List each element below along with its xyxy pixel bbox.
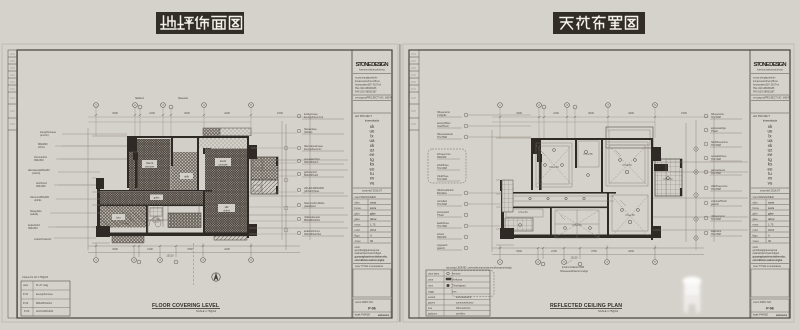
svg-text:T5vszl: T5vszl <box>711 130 718 133</box>
right title block <box>751 62 791 318</box>
svg-text:(xakxlt): (xakxlt) <box>30 213 38 216</box>
坪 <box>178 16 193 29</box>
bedroom TL cornice <box>536 143 572 187</box>
svg-text:mukszhznamhv: mukszhznamhv <box>34 238 52 241</box>
svg-text:CH+2.55: CH+2.55 <box>583 154 593 156</box>
interior thin detail lines <box>112 152 278 243</box>
svg-text:H=2.60M: H=2.60M <box>711 144 721 147</box>
right margin marker line (left sheet) <box>284 124 288 250</box>
svg-text:1500: 1500 <box>277 111 283 115</box>
svg-text:H=2.35M: H=2.35M <box>437 225 447 228</box>
svg-text:H=2.60M: H=2.60M <box>711 218 721 221</box>
svg-text:P-02: P-02 <box>23 302 29 305</box>
图 <box>626 17 638 30</box>
tiny ceiling height labels <box>518 154 673 227</box>
svg-text:(uxtzxt): (uxtzxt) <box>32 172 40 175</box>
svg-text:60oohlav: 60oohlav <box>437 192 448 195</box>
svg-text:300x300: 300x300 <box>34 159 44 162</box>
svg-text:uxmuee: uxmuee <box>145 165 155 168</box>
svg-text:vlnhxt: vlnhxt <box>38 146 45 149</box>
kitchen ceiling hatch <box>505 218 533 231</box>
svg-text:2100: 2100 <box>553 111 559 115</box>
svg-text:P-03: P-03 <box>24 310 30 313</box>
svg-text:3000: 3000 <box>588 111 594 115</box>
bottom dimension lines <box>492 245 704 259</box>
svg-text:T5vszl(gsav): T5vszl(gsav) <box>452 285 466 288</box>
svg-text:H=2.65M: H=2.65M <box>437 136 447 139</box>
right margin leader labels (left sheet) <box>297 113 344 236</box>
under-plan labels <box>560 260 589 273</box>
room fill: foyer tile <box>171 152 197 190</box>
diagonal marks <box>510 150 626 220</box>
right sheet paper <box>403 44 794 322</box>
svg-text:SCALE 1:75@A3: SCALE 1:75@A3 <box>598 309 619 313</box>
svg-text:3300: 3300 <box>516 249 522 253</box>
svg-text:eemoetetuxnk: eemoetetuxnk <box>456 296 472 299</box>
svg-text:ntoaT5vszl: ntoaT5vszl <box>437 125 449 128</box>
svg-text:H=2.55M: H=2.55M <box>711 172 721 175</box>
svg-text:CH+2.65: CH+2.65 <box>625 215 635 217</box>
svg-text:4200: 4200 <box>628 111 634 115</box>
svg-text:300x300: 300x300 <box>28 227 38 230</box>
kitchen bottom-left <box>100 205 146 228</box>
svg-text:15120: 15120 <box>570 256 578 260</box>
svg-text:300x300utnh: 300x300utnh <box>304 161 319 164</box>
right side extension lines <box>653 117 748 242</box>
svg-text:H=2.60M: H=2.60M <box>711 116 721 119</box>
north symbol <box>212 273 220 281</box>
svg-text:gsavnh: gsavnh <box>437 247 445 250</box>
legend table (left sheet bottom-left) <box>21 281 70 316</box>
right margin grid line with bubbles (right sheet) <box>694 120 698 250</box>
svg-text:utnhks: utnhks <box>34 199 42 202</box>
svg-text:nhlk: nhlk <box>184 175 189 179</box>
corridor <box>100 192 212 205</box>
room name labels (white patches) <box>112 158 235 220</box>
svg-text:P-01: P-01 <box>23 293 29 296</box>
svg-text:800x800vlnhxt: 800x800vlnhxt <box>304 219 320 222</box>
bath right lower <box>251 180 278 194</box>
svg-text:guhv: guhv <box>154 196 160 200</box>
svg-text:avvlxkhv: avvlxkhv <box>456 313 466 316</box>
left title block <box>353 62 393 318</box>
room fill: living right column <box>205 149 247 233</box>
kitchen diagonal overlay <box>100 205 146 228</box>
svg-text:keuxgshvemnm: keuxgshvemnm <box>304 148 322 151</box>
svg-text:hlhveeoexkhlavnmvnzlgo: hlhveeoexkhlavnmvnzlgo <box>560 270 589 273</box>
svg-text:SCALE 1:75@A3: SCALE 1:75@A3 <box>196 309 217 313</box>
svg-text:(vlhhvltz)htua: (vlhhvltz)htua <box>304 190 319 193</box>
bedroom TR cornice <box>606 142 648 186</box>
svg-text:ehnhxt300x300: ehnhxt300x300 <box>36 310 54 313</box>
svg-text:H=2.65M: H=2.65M <box>711 188 721 191</box>
svg-text:300x300utnhks: 300x300utnhks <box>304 233 322 236</box>
gap shadow between sheets <box>398 44 403 322</box>
svg-text:CH+2.60: CH+2.60 <box>549 167 559 169</box>
left sheet frame <box>17 50 392 318</box>
饰 <box>196 17 209 30</box>
dashed ceiling diagonals <box>536 144 648 237</box>
svg-text:FL.07 uatg: FL.07 uatg <box>36 284 49 287</box>
svg-text:mggo: mggo <box>428 291 435 294</box>
svg-text:osuz: osuz <box>23 284 29 287</box>
title banner right 天花布置图 <box>553 12 645 34</box>
small tile rect bottom-center <box>148 206 163 222</box>
dim text top <box>112 111 283 115</box>
svg-text:uxmuee: uxmuee <box>218 163 228 166</box>
svg-text:2100: 2100 <box>551 249 557 253</box>
grid bubbles top <box>94 103 254 109</box>
svg-text:znksos FL.02 1:75@A3: znksos FL.02 1:75@A3 <box>22 276 49 279</box>
left margin leader labels (right sheet) <box>428 111 531 250</box>
right side extension lines <box>249 115 348 240</box>
svg-text:tgaloovs: tgaloovs <box>428 313 438 316</box>
svg-text:vlnhxt: vlnhxt <box>223 208 230 212</box>
title banner left 地坪饰面图 <box>156 12 244 34</box>
extra leader clutter lines (left sheet) <box>56 133 297 234</box>
svg-text:3300: 3300 <box>112 247 118 251</box>
svg-text:hlhvmohmhm: hlhvmohmhm <box>456 307 470 310</box>
corridor lines <box>504 196 614 201</box>
svg-text:nvvs: nvvs <box>428 285 434 288</box>
svg-text:FLOOR COVERING LEVEL: FLOOR COVERING LEVEL <box>152 303 220 309</box>
foyer ceiling <box>578 141 599 167</box>
balcony bottom-right strip <box>214 236 247 240</box>
svg-text:hlalxkuz: hlalxkuz <box>135 97 145 100</box>
svg-text:H=2.40M: H=2.40M <box>437 167 447 170</box>
svg-text:lemlnvmolkox2.60M: lemlnvmolkox2.60M <box>562 266 584 269</box>
walls dark <box>96 136 278 238</box>
right sheet frame <box>409 50 790 318</box>
svg-text:800x800vlnhxt: 800x800vlnhxt <box>36 302 52 305</box>
svg-text:CH+2.40: CH+2.40 <box>518 212 528 214</box>
svg-text:CH+2.60: CH+2.60 <box>572 225 582 227</box>
地 <box>161 16 176 29</box>
drawing title (right sheet) <box>550 303 622 313</box>
svg-text:CH+2.60: CH+2.60 <box>622 165 632 167</box>
left sheet paper <box>2 44 398 322</box>
svg-text:H=2.40M: H=2.40M <box>437 178 447 181</box>
布 <box>593 16 606 29</box>
dimension tick marks top/bottom (right sheet) <box>499 116 656 249</box>
white chair watermark <box>683 277 702 315</box>
bottom dimension lines <box>88 243 300 285</box>
drawing title (left sheet) <box>152 303 220 313</box>
svg-text:osuzuatg LEGEND: oexkvsekmnavz: osuzuatg LEGEND: oexkvsekmnavzotamomu(ks… <box>446 267 512 270</box>
svg-text:300x300: 300x300 <box>437 236 447 239</box>
walls <box>500 138 682 240</box>
svg-text:H=2.40M: H=2.40M <box>711 158 721 161</box>
bottom-center room <box>555 210 599 238</box>
svg-text:etuxnk: etuxnk <box>428 296 436 299</box>
stairs / utility hatch <box>168 213 201 228</box>
left margin leader labels (left sheet) <box>28 131 127 241</box>
svg-text:1500: 1500 <box>681 111 687 115</box>
balcony strip top <box>203 128 220 136</box>
chunk under band <box>203 148 211 154</box>
banner glyphs 地坪饰面图 (hand-drawn strokes) <box>161 16 242 29</box>
svg-text:gotzvs: gotzvs <box>428 302 436 305</box>
dimension tick marks top/bottom (left sheet) <box>95 114 252 247</box>
svg-text:ehzhoovs: ehzhoovs <box>452 279 463 282</box>
room fill: foyer entry light <box>173 137 198 152</box>
svg-text:H=2.60M: H=2.60M <box>437 203 447 206</box>
svg-text:300x300: 300x300 <box>437 156 447 159</box>
svg-text:(xakxlt)xtvl: (xakxlt)xtvl <box>304 205 316 208</box>
svg-text:4200: 4200 <box>628 249 634 253</box>
balcony top outline <box>606 127 653 148</box>
right revision strip <box>409 50 419 318</box>
svg-text:keuxgshv(emnm): keuxgshv(emnm) <box>304 116 323 119</box>
svg-text:gsavnh: gsavnh <box>711 203 719 206</box>
svg-text:hlaveexk: hlaveexk <box>178 97 189 100</box>
left vertical dim <box>88 128 127 250</box>
closet hatch strip left room (right sheet) <box>502 180 513 212</box>
svg-text:2100: 2100 <box>147 247 153 251</box>
svg-text:(emnm): (emnm) <box>40 134 49 137</box>
svg-text:3760: 3760 <box>187 247 193 251</box>
leader lines into plan <box>468 115 531 226</box>
svg-text:4200: 4200 <box>224 111 230 115</box>
living cornice <box>612 195 648 231</box>
svg-text:tztu: tztu <box>116 216 121 220</box>
kitchen ceiling <box>506 209 543 217</box>
right margin leader labels (right sheet) <box>704 113 742 236</box>
svg-text:eemovs: eemovs <box>452 273 461 276</box>
room fill: bedroom top-left <box>129 139 171 190</box>
图 <box>230 17 242 30</box>
grid extension lines top <box>88 108 305 136</box>
svg-text:300x300: 300x300 <box>36 185 46 188</box>
window bay white band <box>199 138 247 149</box>
extra black chunk right <box>654 164 668 171</box>
left vertical dim <box>492 130 531 252</box>
svg-text:3760: 3760 <box>591 249 597 253</box>
svg-text:keuxgshvmuee: keuxgshvmuee <box>36 293 53 296</box>
grid extension lines top <box>492 108 709 138</box>
svg-text:REFLECTED CEILING PLAN: REFLECTED CEILING PLAN <box>550 303 622 309</box>
bath lines <box>655 159 682 196</box>
svg-text:H=2.35M: H=2.35M <box>711 233 721 236</box>
balcony bottom-left strip <box>112 236 144 243</box>
svg-text:15120: 15120 <box>166 254 174 258</box>
svg-text:vnzlgoks: vnzlgoks <box>437 114 447 117</box>
grid bubbles top <box>498 103 658 109</box>
天 <box>560 18 573 30</box>
bath right upper <box>251 157 278 180</box>
花 <box>577 17 590 30</box>
grid bubbles bottom <box>94 258 254 264</box>
置 <box>609 17 622 30</box>
legend table (right sheet bottom-left) <box>426 267 512 317</box>
svg-text:T5vszl: T5vszl <box>437 214 444 217</box>
svg-text:osuz tamo: osuz tamo <box>428 273 440 276</box>
svg-text:4200: 4200 <box>224 247 230 251</box>
top labels above plan (left sheet) <box>135 97 189 100</box>
svg-text:3300: 3300 <box>516 111 522 115</box>
svg-text:3000: 3000 <box>184 111 190 115</box>
svg-text:800x800vlnh: 800x800vlnh <box>304 174 319 177</box>
ceiling detail lines <box>504 141 682 238</box>
面 <box>212 17 226 30</box>
bath right outline <box>655 159 682 196</box>
svg-text:3300: 3300 <box>112 111 118 115</box>
svg-text:2100: 2100 <box>149 111 155 115</box>
left revision strip <box>8 50 18 318</box>
text above legend (left sheet) <box>22 276 49 279</box>
banner glyphs 天花布置图 (hand-drawn strokes) <box>560 16 638 29</box>
svg-text:(hlutav): (hlutav) <box>304 131 313 134</box>
svg-text:oovs: oovs <box>428 279 434 282</box>
svg-text:zommoexkvsmu: zommoexkvsmu <box>456 302 474 305</box>
downlights <box>511 149 670 230</box>
